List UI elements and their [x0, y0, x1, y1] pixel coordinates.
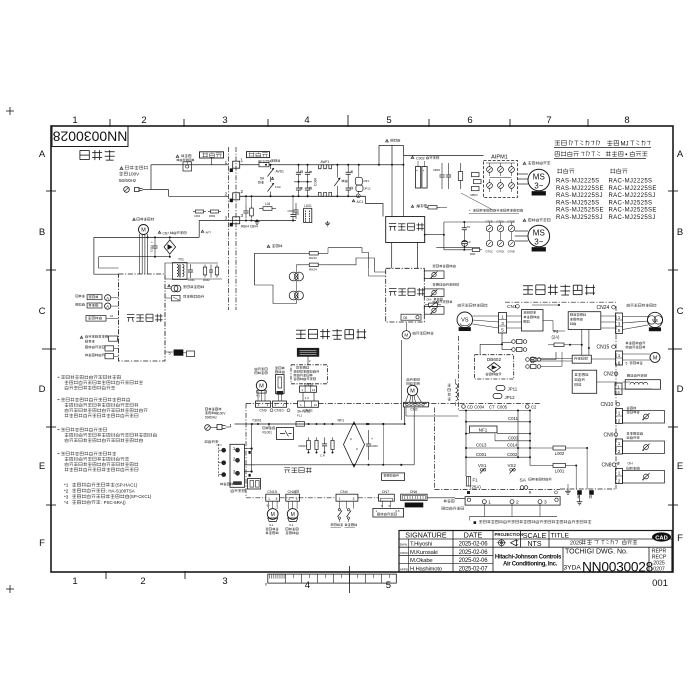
svg-text:AIPM1: AIPM1: [491, 155, 508, 161]
svg-text:(SP-CKC1): (SP-CKC1): [129, 494, 151, 499]
svg-text:C: C: [39, 306, 46, 317]
svg-text:CHKD.: CHKD.: [400, 551, 410, 555]
svg-text:RAC-MJ2525SJ: RAC-MJ2525SJ: [609, 215, 656, 221]
svg-text:C06: C06: [287, 209, 293, 213]
svg-text:6: 6: [618, 360, 621, 365]
fan inverter box: [568, 312, 601, 330]
svg-text:6: 6: [467, 115, 472, 126]
thermistor pair TH upper: [289, 272, 298, 281]
svg-text:1: 1: [288, 497, 290, 501]
power circuit small box: [534, 358, 572, 360]
connector CN10 sensor: [273, 401, 287, 407]
svg-text:L04: L04: [265, 202, 271, 206]
surge unit MF1 JP12: [355, 177, 362, 185]
svg-text:CN4: CN4: [340, 490, 348, 494]
svg-text:T01: T01: [178, 258, 184, 262]
svg-text:CN9: CN9: [259, 409, 266, 413]
corner crop mark top-left: [6, 110, 14, 112]
svg-text:3: 3: [222, 115, 227, 126]
wire box to transformer: [165, 263, 218, 274]
svg-text:: PSC-6RA(): : PSC-6RA(): [101, 500, 126, 505]
svg-text:5: 5: [626, 362, 628, 366]
svg-text:APPD.: APPD.: [400, 567, 409, 571]
svg-text:M: M: [291, 512, 295, 518]
svg-text:7: 7: [546, 115, 551, 126]
wires terminal strip down: [483, 504, 485, 517]
svg-text:PROJECTION: PROJECTION: [495, 532, 524, 537]
expansion valve motor label: [626, 342, 646, 345]
indoor fan motor MS 3ph: [523, 219, 526, 222]
svg-text:NN0030028: NN0030028: [582, 560, 654, 575]
indoor wiring diagram title: [296, 329, 366, 339]
svg-text:2: 2: [618, 479, 621, 484]
resistor RH33: [306, 252, 310, 254]
svg-text:2: 2: [516, 500, 519, 506]
svg-text:*3: *3: [64, 494, 69, 499]
svg-text:CN1: CN1: [507, 304, 517, 310]
svg-text:L001: L001: [555, 469, 565, 474]
fuse F1 25A: [466, 477, 470, 487]
svg-text:GT0A: GT0A: [497, 220, 504, 224]
resistor R002: [332, 437, 334, 440]
svg-text:M: M: [259, 384, 264, 390]
wire lower rail indoor: [234, 464, 236, 466]
indoor control circuit block: [119, 274, 166, 361]
capacitor C06: [295, 203, 297, 210]
wire top rail to AIPM: [403, 154, 483, 156]
reversing circuit box: [572, 370, 597, 393]
resistors RB03 RB04 RB05: [472, 173, 480, 177]
svg-text:B: B: [677, 227, 683, 238]
svg-text:: HA-S100TSA: : HA-S100TSA: [106, 488, 135, 493]
svg-text:13: 13: [312, 388, 316, 392]
svg-text:DH-: DH-: [427, 298, 432, 302]
svg-text:D: D: [39, 384, 46, 395]
svg-text:1: 1: [241, 158, 244, 163]
four way valve coil M: [402, 331, 410, 339]
bridge diode CN7 option: [158, 231, 161, 233]
bus L3: [240, 220, 296, 222]
emergency switch SW2: [347, 509, 349, 511]
svg-text:VS: VS: [461, 318, 469, 324]
wire bottom loop: [255, 285, 297, 304]
svg-text:GT0B: GT0B: [508, 220, 515, 224]
display pcb box: [291, 365, 328, 384]
snubber C04 R04: [245, 206, 247, 212]
svg-text:RH33: RH33: [309, 256, 317, 260]
drawing frame border: [51, 126, 673, 572]
svg-text:C001: C001: [476, 452, 487, 457]
buzzer label: [205, 440, 219, 443]
svg-text:R90: R90: [470, 252, 476, 256]
svg-text:8: 8: [624, 115, 629, 126]
wireless remocon box: [297, 348, 319, 356]
air thermistor loop: [627, 407, 636, 410]
svg-text:MS: MS: [533, 173, 545, 182]
svg-text:RAS-MJ2225SJ: RAS-MJ2225SJ: [556, 193, 603, 199]
capacitors CB02 CB03: [441, 163, 443, 175]
relay contact S1: [336, 165, 338, 178]
svg-text:M.Okabe: M.Okabe: [410, 558, 433, 564]
display unit connector: [86, 316, 106, 322]
svg-text:OH: OH: [628, 462, 634, 466]
electrolytic capacitors C902 C903: [416, 167, 421, 189]
power plug label 100V 50/60Hz: [120, 167, 123, 170]
svg-text:Air Conditioning, Inc.: Air Conditioning, Inc.: [503, 562, 558, 568]
emergency switch SW1: [338, 509, 340, 511]
svg-text:TITLE: TITLE: [551, 533, 570, 540]
boundary terminal pads: [230, 168, 233, 172]
wires inverter to fan motor: [515, 230, 528, 232]
bus L1: [240, 164, 404, 166]
svg-text:001: 001: [652, 578, 668, 589]
svg-text:DATE: DATE: [464, 531, 483, 540]
corner crop mark bottom-left: [6, 588, 14, 590]
svg-text:AWF1: AWF1: [321, 160, 330, 164]
svg-text:+: +: [416, 169, 418, 173]
notes bullet 1 home automation: [58, 376, 60, 378]
RC snubbers: [204, 265, 206, 268]
pcb boundary dash-dot top: [246, 403, 298, 405]
svg-text:AF7: AF7: [206, 231, 212, 235]
svg-text:VS: VS: [652, 318, 658, 323]
svg-text:M: M: [271, 512, 275, 518]
svg-text:3: 3: [618, 322, 621, 327]
svg-text:5: 5: [501, 328, 504, 333]
junction dots indoor: [251, 423, 253, 425]
room thermistor TH1: [171, 285, 178, 292]
svg-text:RB03: RB03: [471, 193, 478, 197]
svg-text:MJ: MJ: [621, 141, 629, 147]
indoor service relay K1: [176, 155, 179, 158]
svg-text:5: 5: [618, 328, 621, 333]
oil sensor box: [401, 314, 421, 320]
oh thermistor: [433, 300, 453, 303]
printed scale ruler: [268, 574, 397, 583]
svg-text:Oil: Oil: [403, 316, 407, 320]
inductor L04: [259, 208, 263, 210]
svg-text:DWN.: DWN.: [400, 543, 408, 547]
svg-text:VS1: VS1: [478, 463, 487, 468]
svg-text:FU2: FU2: [275, 185, 281, 189]
svg-text:DB602: DB602: [487, 357, 501, 362]
wires CN16 to CN1E: [302, 392, 304, 401]
svg-text:1: 1: [268, 497, 270, 501]
svg-text:o: o: [356, 447, 358, 451]
svg-text:R042: R042: [203, 278, 210, 282]
svg-text:2: 2: [141, 115, 146, 126]
bottom margin ticks: [105, 571, 107, 579]
wires fan motor to control box: [139, 234, 141, 274]
capacitor C06: [292, 211, 294, 215]
svg-text:MF1: MF1: [364, 179, 370, 183]
svg-text:CN24: CN24: [597, 305, 610, 311]
compressor motor label: [458, 304, 488, 307]
svg-text:C002: C002: [507, 452, 518, 457]
svg-text:CN10: CN10: [274, 409, 283, 413]
svg-text:VR001: VR001: [298, 444, 307, 448]
svg-text:C R: C R: [320, 454, 325, 458]
svg-text:5: 5: [386, 580, 391, 591]
model table heading outdoor: [610, 168, 627, 173]
svg-text:RAS-MJ2225SE: RAS-MJ2225SE: [556, 186, 604, 192]
varistor VR001: [308, 437, 310, 440]
svg-text:3~: 3~: [534, 238, 543, 247]
terminal block internal wires: [245, 448, 252, 450]
svg-text:F4: F4: [554, 329, 560, 334]
svg-text:GT0E: GT0E: [508, 250, 515, 254]
svg-text:RAS-MJ2525SE: RAS-MJ2525SE: [556, 208, 604, 214]
svg-text:3~: 3~: [534, 182, 543, 191]
svg-text:A: A: [39, 149, 46, 160]
kairozu circuit-diagram title: [80, 150, 115, 160]
svg-text:F: F: [677, 533, 683, 544]
svg-text:100V: 100V: [218, 411, 226, 415]
wire plug to terminals: [143, 189, 152, 191]
svg-text:1: 1: [488, 500, 491, 506]
svg-text:*1: *1: [64, 483, 69, 488]
svg-text:C003: C003: [371, 444, 378, 448]
svg-text:VS2: VS2: [508, 463, 517, 468]
junction dots outdoor: [558, 304, 560, 306]
horizontal vane motor M2: [287, 509, 298, 520]
svg-text:JP12: JP12: [364, 187, 371, 191]
CAD logo: [652, 532, 671, 541]
svg-text:1: 1: [72, 115, 77, 126]
svg-text:E: E: [39, 461, 45, 472]
junction dots buses: [298, 164, 300, 166]
svg-text:C041: C041: [188, 278, 195, 282]
indoor outdoor boundary dash-dot: [228, 147, 230, 310]
svg-text:1: 1: [618, 411, 621, 416]
pcb pads: [578, 491, 582, 495]
af7 warning label: [201, 230, 204, 232]
svg-text:2: 2: [618, 419, 621, 424]
svg-text:16: 16: [110, 314, 114, 318]
rectifier DB602 box: [474, 355, 513, 379]
humidity sensor: [172, 296, 181, 301]
capacitor C041: [190, 264, 192, 270]
svg-text:o: o: [350, 437, 352, 441]
terminal strip label: [444, 499, 455, 502]
svg-text:4: 4: [617, 390, 620, 395]
noise filter NF1 outdoor: [470, 426, 498, 433]
svg-text:+: +: [371, 437, 373, 441]
note leader line: [461, 193, 492, 210]
outdoor unit label box: [247, 152, 270, 158]
svg-text:3: 3: [241, 213, 244, 218]
svg-text:2: 2: [140, 576, 145, 587]
wire loop around option: [94, 236, 199, 238]
svg-text:CN7: CN7: [382, 490, 390, 494]
svg-text:C902: C902: [416, 157, 425, 161]
svg-text:CN9: CN9: [604, 433, 614, 439]
svg-text:C014: C014: [507, 443, 518, 448]
reactor DCL: [448, 384, 451, 401]
svg-text:4: 4: [304, 115, 309, 126]
L001 choke: [553, 464, 566, 468]
svg-text:2025-02-06: 2025-02-06: [459, 550, 489, 556]
note jumper line: [474, 521, 477, 524]
svg-text:1: 1: [225, 160, 228, 165]
remote receiver A1: [76, 295, 85, 298]
wire loop to rectifier: [378, 145, 380, 164]
fan motor wires fanout: [406, 394, 422, 402]
fan inverter capacitors: [463, 222, 465, 228]
svg-text:NTS: NTS: [528, 541, 542, 548]
svg-text:1: 1: [618, 315, 621, 320]
terminal module box: [373, 508, 404, 517]
svg-text:C005: C005: [497, 405, 508, 410]
svg-text:1: 1: [72, 576, 77, 587]
svg-text:3: 3: [544, 500, 547, 506]
svg-text:3-1: 3-1: [289, 523, 294, 527]
varistor AVS1: [270, 165, 272, 169]
wire rails outdoor pcb: [465, 411, 467, 477]
outdoor wiring diagram title: [523, 285, 595, 295]
wires fan connector down: [405, 407, 407, 417]
svg-text:+: +: [151, 241, 153, 245]
defrost thermistor: [433, 283, 459, 286]
ground G2: [327, 221, 329, 223]
svg-text:CN8: CN8: [602, 463, 612, 469]
svg-text:C063: C063: [150, 245, 154, 252]
svg-text:GT08: GT08: [486, 220, 493, 224]
model table heading indoor: [557, 168, 574, 173]
svg-text:100V: 100V: [129, 172, 141, 177]
svg-text:5: 5: [276, 497, 278, 501]
svg-text:T3001: T3001: [252, 419, 262, 423]
top margin ticks: [109, 119, 111, 127]
compressor motor MS 3ph: [523, 162, 526, 165]
svg-text:1: 1: [618, 441, 621, 446]
svg-text:C2: C2: [531, 405, 537, 410]
wires power block: [391, 165, 393, 217]
aux component box: [382, 473, 405, 481]
four way valve coil box: [627, 374, 646, 377]
capacitors C581 C582: [347, 165, 349, 173]
svg-text:3: 3: [222, 576, 227, 587]
svg-text:C061: C061: [194, 214, 201, 218]
svg-text:5A: 5A: [260, 177, 265, 181]
power supply circuit block: [386, 217, 425, 243]
wire transformer bottom: [165, 278, 222, 280]
svg-text:2: 2: [618, 449, 621, 454]
ground G1: [256, 220, 258, 222]
svg-text:SCALE: SCALE: [523, 531, 547, 540]
svg-text:CB02: CB02: [433, 168, 440, 172]
header line2 indoor outdoor unit circuit wiring diagram: [555, 151, 579, 156]
svg-text:CN10: CN10: [601, 402, 614, 408]
fuse holder box: [248, 479, 261, 490]
svg-text:3: 3: [296, 497, 298, 501]
svg-text:C013: C013: [476, 443, 487, 448]
svg-text:NF1: NF1: [479, 427, 488, 432]
humidity temp sensor: [275, 367, 284, 370]
ground outdoor: [567, 489, 569, 491]
terminal block indoor: [230, 444, 245, 487]
svg-text:*4: *4: [64, 500, 69, 505]
terminal strip outdoor: [465, 497, 560, 506]
svg-text:1: 1: [617, 384, 620, 389]
svg-text:RAS-MJ2525SJ: RAS-MJ2525SJ: [556, 215, 603, 221]
svg-text:CAD: CAD: [655, 535, 668, 541]
ventilation connector: [85, 346, 104, 349]
svg-text:M.Kurosaki: M.Kurosaki: [410, 550, 437, 556]
vertical vane motor M1: [267, 509, 278, 520]
indoor fan motor M small: [137, 218, 154, 221]
svg-text:GT0D: GT0D: [497, 250, 504, 254]
svg-text:+: +: [423, 169, 425, 173]
svg-text:0207: 0207: [653, 567, 665, 573]
svg-text:50/60Hz: 50/60Hz: [205, 416, 217, 420]
svg-text:4-1: 4-1: [269, 523, 274, 527]
ground outdoor right: [579, 500, 581, 502]
svg-text:1.3: 1.3: [305, 396, 310, 400]
svg-text:M: M: [653, 355, 657, 361]
svg-text:FL1: FL1: [297, 413, 303, 417]
jumper JP11: [496, 386, 505, 391]
svg-text:D: D: [677, 384, 684, 395]
indoor wiring power plug: [205, 425, 211, 431]
svg-text:M: M: [410, 389, 415, 395]
svg-text:RH24: RH24: [309, 268, 317, 272]
svg-text:CN2: CN2: [604, 372, 614, 378]
svg-text:2025: 2025: [570, 541, 582, 547]
capacitor C063: [154, 241, 156, 247]
cable CN6 to outdoor terminal: [427, 497, 455, 499]
svg-text:GT0C: GT0C: [486, 250, 493, 254]
wires AIPM to compressor: [518, 173, 529, 175]
thermistor pair TH lower: [289, 291, 298, 300]
connector CN2 black: [404, 402, 429, 407]
high temp label: [267, 245, 270, 248]
svg-text:A: A: [677, 149, 684, 160]
svg-text:50/60Hz: 50/60Hz: [119, 178, 137, 183]
svg-text:A: A: [106, 304, 109, 309]
svg-text:RAC-MJ2225S: RAC-MJ2225S: [609, 179, 653, 185]
cable boundary dashed: [218, 444, 220, 478]
bleeder resistor RB01: [460, 163, 462, 172]
svg-text:2025-02-06: 2025-02-06: [459, 558, 489, 564]
fan inverter top rail: [444, 221, 514, 223]
bus L2: [240, 195, 366, 197]
compressor inverter circuit box: [522, 310, 544, 332]
capacitor C003 indoor: [368, 430, 370, 444]
connector pads C3 row1: [512, 340, 516, 344]
svg-text:M: M: [141, 228, 146, 234]
svg-text:C011: C011: [508, 416, 519, 421]
svg-text:RAC-MJ2225SJ: RAC-MJ2225SJ: [609, 193, 656, 199]
svg-text:RL001: RL001: [263, 431, 273, 435]
svg-text:TOCHIGI DWG. No.: TOCHIGI DWG. No.: [565, 549, 628, 556]
wires power to control blocks: [391, 243, 393, 269]
svg-text:4 1: 4 1: [256, 394, 260, 398]
wires compressor to CN1: [472, 315, 498, 317]
pcb dash-dot bottom: [245, 404, 247, 498]
svg-text:F1: F1: [473, 478, 479, 483]
outdoor air thermistor: [433, 265, 456, 268]
svg-text:JP11: JP11: [508, 387, 518, 392]
svg-text:B: B: [39, 227, 45, 238]
resistor R90: [470, 249, 472, 251]
svg-text:F: F: [39, 538, 45, 549]
svg-text:RB04 CB04: RB04 CB04: [241, 225, 258, 229]
filter capacitors C563 C564: [298, 182, 300, 188]
capacitor C002: [324, 437, 326, 444]
svg-text:CN15: CN15: [267, 490, 277, 494]
smoothing capacitor label C902: [411, 156, 414, 159]
